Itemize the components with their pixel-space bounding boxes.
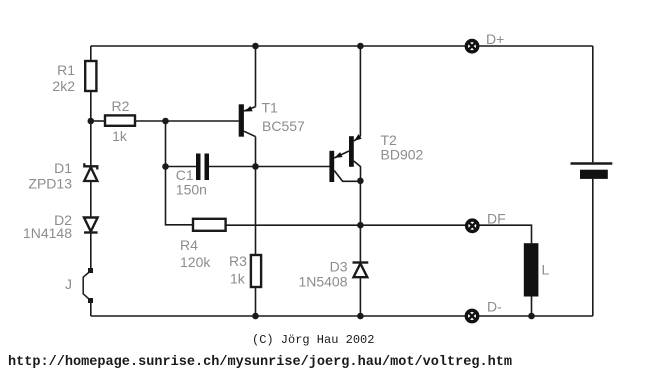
svg-text:120k: 120k — [180, 254, 211, 270]
wire R1 to node B1 — [90, 91, 92, 121]
label D1 value ZPD13 — [28, 160, 72, 192]
terminal D+ — [466, 41, 477, 52]
wire node F to DF terminal and L — [360, 225, 531, 243]
svg-text:J: J — [65, 276, 72, 292]
wire T1 collector down to node D — [255, 137, 257, 167]
inductor L — [524, 243, 539, 296]
svg-text:(C) Jörg Hau 2002: (C) Jörg Hau 2002 — [252, 333, 374, 347]
wire R2 to node B2 — [135, 120, 166, 122]
wire T1 emitter up to node E1 — [255, 46, 257, 107]
label R1 value 2k2 — [52, 62, 75, 94]
svg-text:D-: D- — [487, 299, 502, 315]
node E2 junction — [357, 43, 364, 50]
svg-text:T1: T1 — [262, 100, 279, 116]
node D junction — [252, 163, 259, 170]
diode D3 — [353, 263, 369, 278]
wire top rail — [91, 45, 593, 47]
battery BT1 — [571, 164, 613, 179]
wire C1 to node D — [209, 166, 256, 168]
node F junction — [357, 222, 364, 229]
wire node B2 down to node C — [165, 121, 167, 167]
svg-text:1N4148: 1N4148 — [23, 225, 72, 241]
wire node D to T2 base — [256, 166, 330, 168]
label C1 value 150n — [176, 167, 207, 198]
svg-text:DF: DF — [487, 211, 506, 227]
svg-text:R1: R1 — [57, 62, 75, 78]
node G1 junction — [252, 313, 259, 320]
wire L to bottom rail — [531, 297, 533, 317]
node E1 junction — [252, 43, 259, 50]
node B1 junction — [88, 118, 95, 125]
wire T2 emitter up to node E2 — [359, 46, 361, 136]
transistor T2 darlington — [329, 134, 361, 182]
svg-text:1k: 1k — [230, 271, 246, 287]
wire bottom rail — [91, 315, 593, 317]
svg-text:2k2: 2k2 — [52, 78, 75, 94]
wire jumper J to bottom rail — [90, 301, 92, 317]
wire D1 to D2 — [90, 181, 92, 218]
diode D1 zener — [84, 163, 97, 181]
capacitor C1 — [196, 154, 209, 181]
label T2 value BD902 — [381, 132, 424, 163]
wire D2 to jumper J — [90, 233, 92, 271]
wire node D down to R3 — [255, 167, 257, 256]
resistor R3 — [251, 255, 261, 287]
wire node F to D3 — [359, 225, 361, 262]
svg-text:D1: D1 — [54, 160, 72, 176]
label R4 value 120k — [180, 237, 211, 270]
svg-text:1k: 1k — [112, 128, 128, 144]
node C junction — [162, 163, 169, 170]
svg-text:D3: D3 — [330, 259, 348, 275]
node G2 junction — [357, 313, 364, 320]
label D2 value 1N4148 — [23, 212, 72, 241]
terminal D- — [466, 310, 477, 321]
wire node B1 to D1 — [90, 121, 92, 166]
node T2C junction — [357, 178, 364, 185]
svg-text:1N5408: 1N5408 — [298, 274, 347, 290]
svg-text:BD902: BD902 — [381, 147, 424, 163]
wire node B1 to R2 — [91, 120, 105, 122]
node G3 junction — [528, 313, 535, 320]
label R3 value 1k — [229, 253, 247, 287]
svg-text:D+: D+ — [486, 31, 504, 47]
label T1 value BC557 — [262, 100, 306, 135]
diode D2 — [84, 218, 98, 233]
svg-text:BC557: BC557 — [262, 118, 305, 134]
wire node B2 to T1 base — [166, 120, 239, 122]
wire left rail top segment — [90, 46, 92, 61]
terminal DF — [467, 220, 478, 231]
wire R4 to node F — [226, 224, 361, 226]
wire node C down to R4 — [166, 167, 194, 225]
svg-text:R2: R2 — [112, 98, 130, 114]
resistor R4 — [193, 219, 226, 231]
wire R3 to bottom rail — [255, 287, 257, 316]
label R2 value 1k — [112, 98, 130, 144]
node B2 junction — [162, 118, 169, 125]
svg-text:150n: 150n — [176, 182, 207, 198]
wire node C to C1 — [166, 166, 197, 168]
wire D3 to bottom rail — [359, 277, 361, 316]
resistor R2 — [105, 115, 135, 125]
resistor R1 — [85, 61, 96, 91]
svg-text:R3: R3 — [229, 253, 247, 269]
svg-text:ZPD13: ZPD13 — [28, 176, 72, 192]
jumper J — [83, 268, 93, 303]
svg-text:http://homepage.sunrise.ch/mys: http://homepage.sunrise.ch/mysunrise/joe… — [8, 355, 512, 370]
svg-text:L: L — [542, 262, 550, 278]
wire right rail lower — [592, 179, 594, 316]
label D3 value 1N5408 — [298, 259, 347, 290]
wire right rail upper — [592, 46, 594, 162]
wire T2 collector down to node F — [359, 181, 361, 225]
svg-text:R4: R4 — [180, 237, 198, 253]
transistor T1 — [239, 104, 256, 136]
